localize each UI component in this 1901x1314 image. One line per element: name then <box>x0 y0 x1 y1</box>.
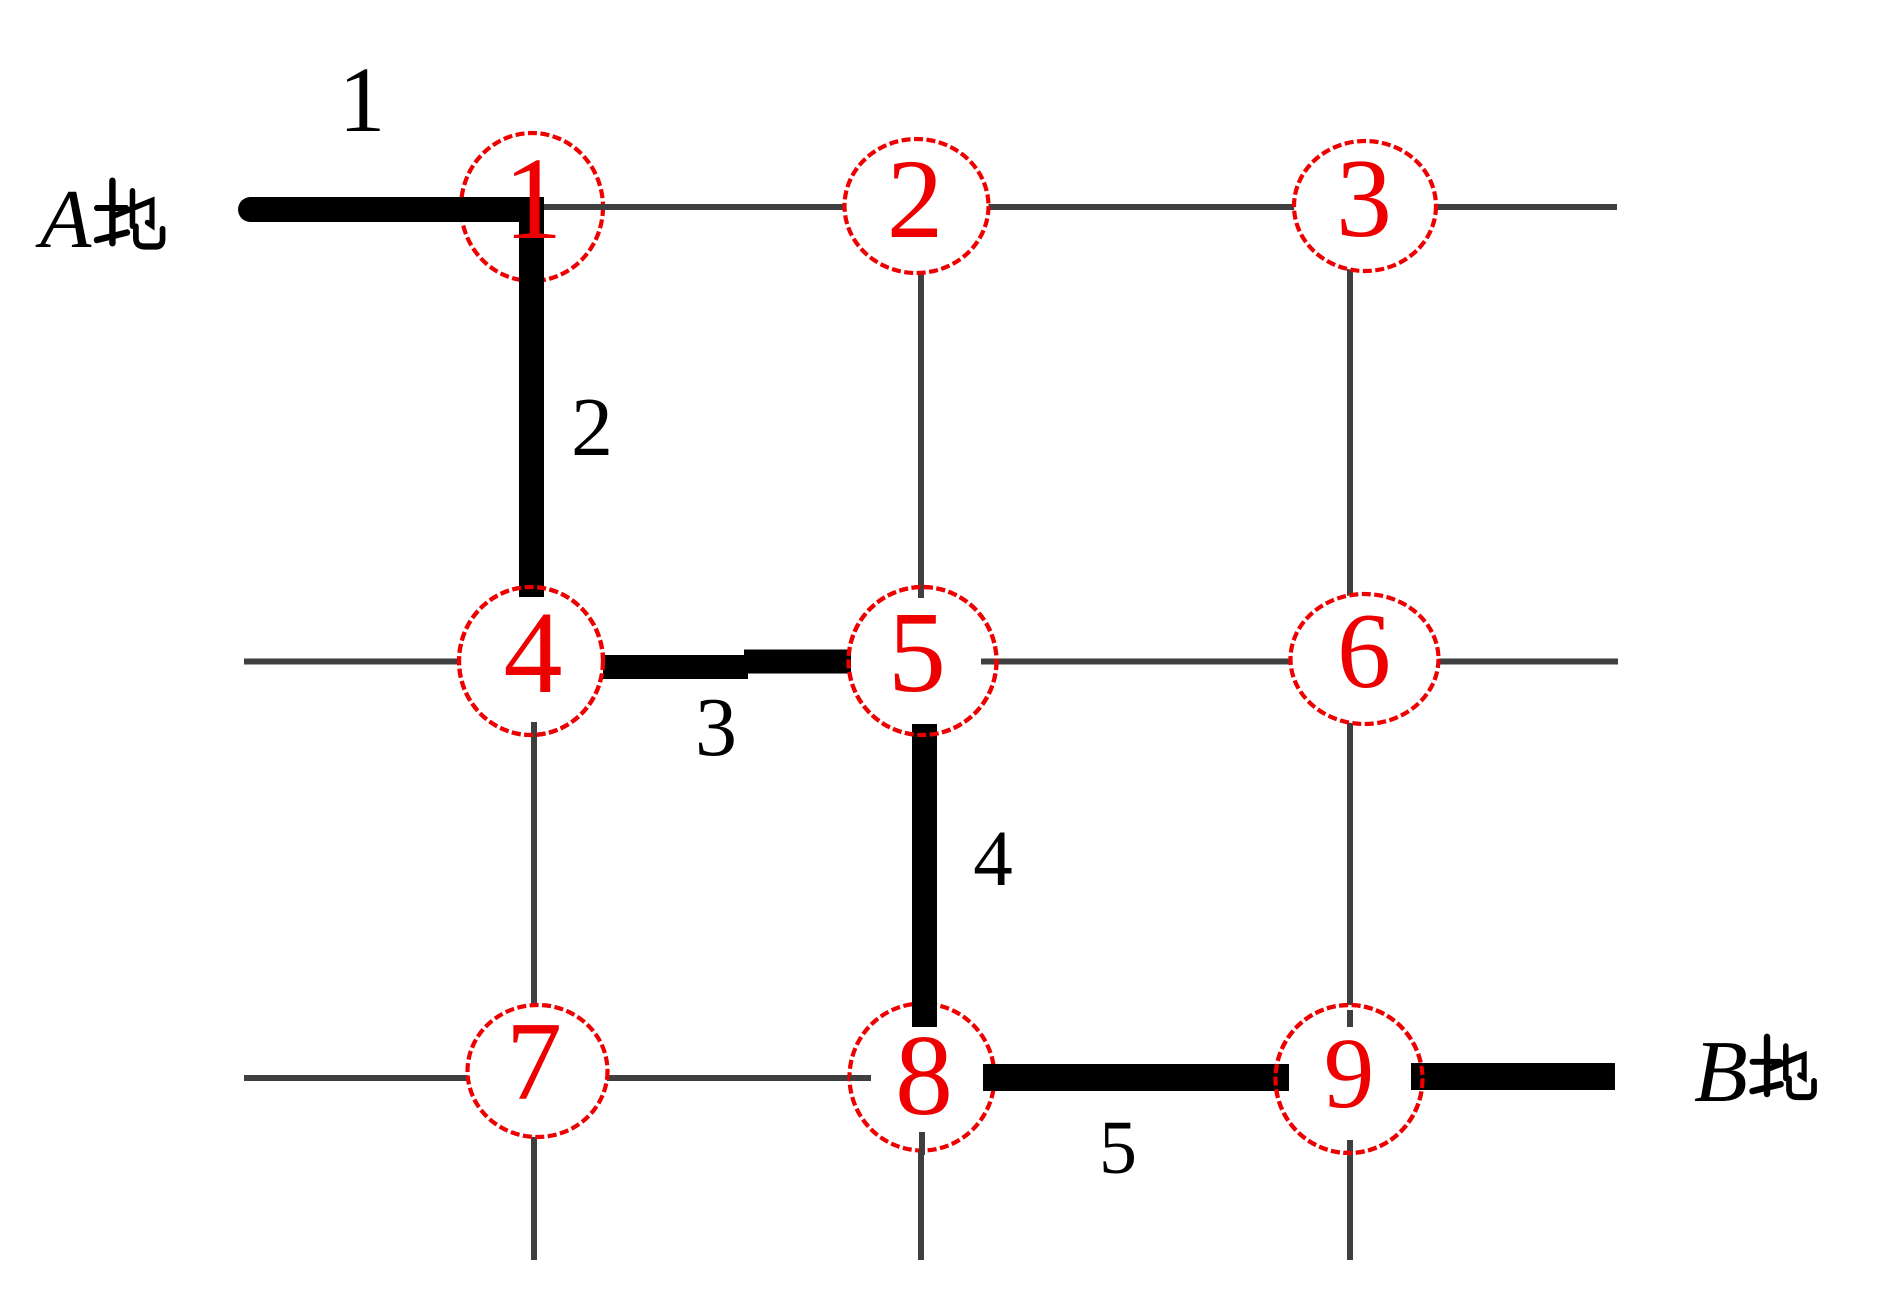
node 2 circle <box>845 139 989 273</box>
node 4 circle <box>459 587 603 735</box>
wire thick segment 1 (A to node1) <box>250 197 544 222</box>
node 9 circle <box>1276 1005 1423 1153</box>
wire column 3 thin (node3-node6-node9-bottom end) <box>1347 206 1353 1260</box>
svg-text:5: 5 <box>1099 1106 1137 1190</box>
wire nub inside node 9 (column 3 thin line above) <box>1347 1010 1353 1027</box>
svg-text:6: 6 <box>1337 592 1391 711</box>
wire nub inside node 4 (column 1 thin line below) <box>531 722 537 742</box>
wire nub inside node 5 (row 2 thin line right) <box>981 659 1002 665</box>
node 4 circle ring redrawn over thick wire <box>459 587 603 735</box>
wire thick segment 3 right part (midpoint to node5) <box>744 650 851 674</box>
node 8 circle <box>850 1004 995 1151</box>
wire nub inside node 5 (column 2 thin line above) <box>918 587 924 598</box>
svg-text:1: 1 <box>339 49 386 152</box>
svg-text:5: 5 <box>888 589 946 717</box>
svg-text:4: 4 <box>973 816 1013 903</box>
node 6 circle <box>1291 594 1439 724</box>
svg-text:2: 2 <box>571 381 613 474</box>
svg-text:8: 8 <box>895 1012 953 1140</box>
wire thick segment 2 (node1 to node4) <box>519 198 544 598</box>
svg-text:9: 9 <box>1324 1017 1375 1129</box>
wire nub inside node 8 (row 3 thin line left) <box>850 1075 871 1081</box>
svg-text:4: 4 <box>504 587 563 718</box>
wire column 1 thin (node4-node7-bottom end) <box>531 661 537 1260</box>
wire row 3 thin (left end-node7-node8-node9-right end) <box>244 1075 1615 1081</box>
svg-text:3: 3 <box>695 681 737 774</box>
node B label (di glyph) <box>1752 1037 1814 1097</box>
svg-text:2: 2 <box>887 137 944 262</box>
node 1 circle <box>461 133 603 281</box>
wire row 1 thin (node1-node2-node3-right end) <box>533 204 1617 210</box>
node 5 circle ring redrawn over thick wire <box>849 587 997 735</box>
wire thick segment 4 (node5 to node8) <box>912 724 937 1027</box>
wire column 2 thin (node2-node5-node8-bottom end) <box>918 206 924 1260</box>
wire thick segment 5 right part (node9 to B) <box>1411 1063 1615 1090</box>
wire thick segment 1 rounded left cap <box>251 197 381 222</box>
svg-text:3: 3 <box>1336 137 1392 261</box>
node A label (di glyph) <box>97 181 163 247</box>
wire nub inside node 8 (column 2 thin line below) <box>919 1132 925 1155</box>
svg-text:7: 7 <box>506 1000 562 1124</box>
svg-text:1: 1 <box>504 133 563 264</box>
wire nub inside node 1 (row 1 thin line over circle) <box>543 204 612 210</box>
wire row 2 thin (left end-node4-node5-node6-right end) <box>244 659 1618 665</box>
wire thick segment 5 left part (node8 to node9) <box>983 1064 1289 1091</box>
node 3 circle <box>1294 141 1436 271</box>
wire nub inside node 9 (column 3 thin line below) <box>1347 1140 1353 1158</box>
svg-text:A: A <box>35 173 92 266</box>
wire thick segment 3 left part (node4 to midpoint) <box>603 655 748 679</box>
node 5 circle <box>849 587 997 735</box>
svg-text:B: B <box>1694 1024 1748 1121</box>
node 7 circle <box>468 1005 608 1137</box>
node 9 circle ring redrawn over thick wire <box>1276 1005 1423 1153</box>
